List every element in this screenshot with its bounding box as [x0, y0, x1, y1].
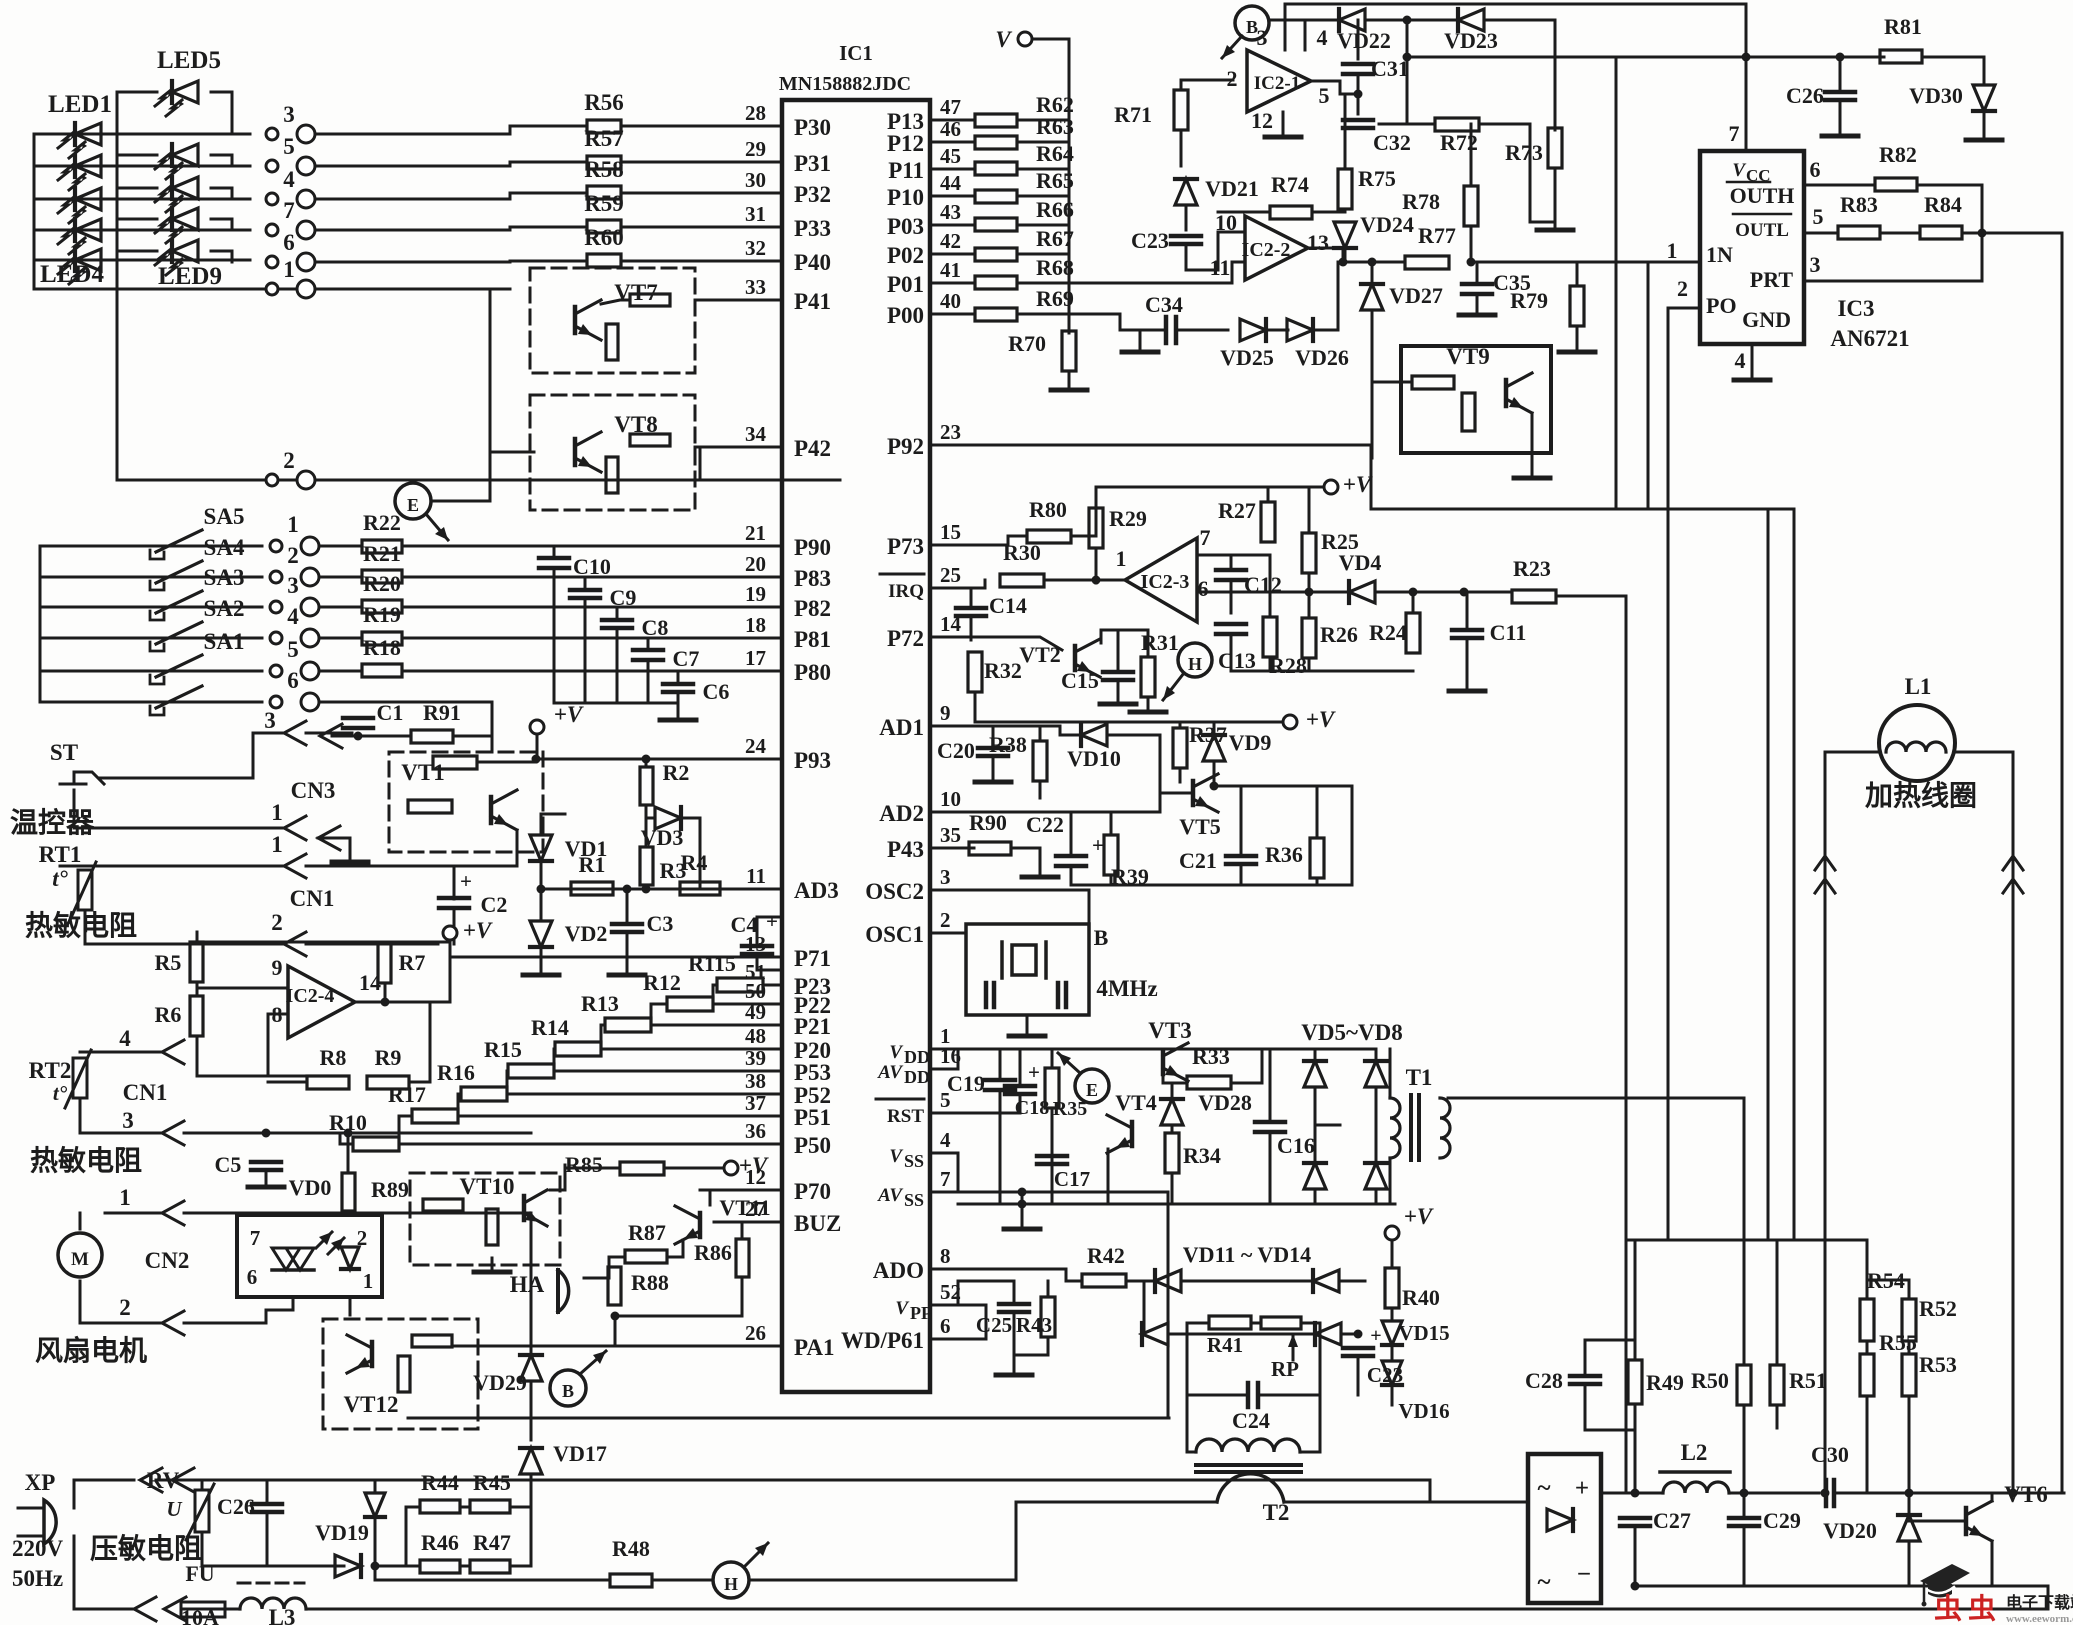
- label 11 IC2-2: [1210, 255, 1231, 280]
- wire R39 down: [1110, 875, 1113, 885]
- wire R87 left: [609, 1257, 625, 1278]
- transistor VT5: [1193, 774, 1218, 812]
- ground VD2: [523, 961, 559, 975]
- resistor R58: [587, 186, 621, 199]
- label pin num 3: [940, 865, 951, 889]
- svg-text:34: 34: [745, 422, 767, 446]
- wire ST down: [74, 790, 284, 828]
- label R26: [1320, 622, 1358, 647]
- label +V 722: [1306, 707, 1336, 732]
- connector arrow C1 left: [320, 724, 342, 748]
- label VD24: [1360, 212, 1414, 237]
- wire VD1 up: [540, 814, 543, 834]
- wire C26 bottom: [266, 1513, 269, 1566]
- label pin num 8: [940, 1244, 951, 1268]
- diode VD2: [530, 921, 552, 947]
- svg-text:45: 45: [940, 144, 961, 168]
- node circle SA3 b: [301, 598, 319, 616]
- svg-text:C17: C17: [1054, 1167, 1090, 1191]
- label pin name P72: [887, 626, 924, 651]
- wire R16 to IC: [507, 1093, 782, 1096]
- wire P70 wire: [700, 1189, 782, 1192]
- transistor VT7: [575, 300, 601, 340]
- label t deg: [52, 866, 68, 891]
- svg-text:B: B: [1094, 925, 1109, 950]
- wire R91 right: [453, 736, 492, 752]
- label VD30: [1909, 83, 1963, 108]
- svg-text:18: 18: [745, 613, 766, 637]
- svg-text:4MHz: 4MHz: [1096, 976, 1157, 1001]
- LED LED5: [155, 81, 198, 116]
- wire T1 top: [1389, 1049, 1392, 1098]
- label R47: [473, 1530, 511, 1555]
- wire LED5 right: [211, 92, 232, 134]
- wire LED row 5: [34, 259, 250, 262]
- svg-text:H: H: [1188, 654, 1202, 674]
- label pin number 11: [746, 864, 766, 888]
- wire pin13 P71 long: [450, 956, 782, 959]
- svg-text:R53: R53: [1919, 1352, 1957, 1377]
- svg-text:P02: P02: [887, 243, 924, 268]
- label 热敏电阻: [25, 910, 137, 942]
- wire R50 down: [1743, 1405, 1746, 1493]
- wire R28 up: [1231, 555, 1270, 617]
- transistor VT6: [1966, 1501, 1992, 1541]
- wire R15 to IC: [554, 1070, 782, 1073]
- wire R52-R53: [1908, 1341, 1911, 1354]
- wire R55 d: [1866, 1396, 1869, 1493]
- label pin name AVDD: [877, 1062, 930, 1087]
- label R31: [1141, 630, 1179, 655]
- ground P43: [1022, 863, 1058, 877]
- label T1: [1406, 1065, 1433, 1090]
- svg-text:VD28: VD28: [1198, 1090, 1252, 1115]
- resistor R20: [362, 600, 402, 613]
- svg-text:VT3: VT3: [1148, 1018, 1191, 1043]
- terminal +V R40: [1385, 1226, 1399, 1240]
- svg-text:C12: C12: [1244, 572, 1282, 597]
- wire CN2-2: [80, 1322, 162, 1325]
- diode VD16: [1382, 1361, 1402, 1385]
- label VD25: [1220, 345, 1274, 370]
- wire VT2 collector up: [1100, 630, 1103, 643]
- capacitor C15: [1103, 672, 1133, 680]
- label plus C18: [1028, 1060, 1040, 1084]
- wire R115 to IC: [763, 984, 782, 987]
- svg-text:3: 3: [264, 708, 276, 733]
- wire bus 885: [1071, 884, 1352, 887]
- svg-text:VD10: VD10: [1067, 746, 1121, 771]
- wire R56 left: [510, 125, 587, 128]
- label pin number 28: [745, 101, 766, 125]
- terminal +V 722: [1283, 715, 1297, 729]
- transistor box VT7 dashed: [530, 268, 695, 373]
- transistor box VT12 dashed: [323, 1319, 478, 1429]
- svg-text:R20: R20: [363, 571, 401, 596]
- svg-text:6: 6: [287, 668, 299, 693]
- svg-text:CN1: CN1: [123, 1080, 168, 1105]
- svg-text:6: 6: [940, 1314, 951, 1338]
- resistor R50: [1737, 1365, 1751, 1405]
- wire right col 2062: [1982, 233, 2062, 1493]
- label C5: [215, 1152, 242, 1177]
- LED LED7: [155, 177, 198, 212]
- wire C35 down: [1476, 294, 1479, 308]
- node small circle row 3: [266, 128, 278, 140]
- label pin name P21: [794, 1014, 831, 1039]
- node R24 top: [1409, 588, 1418, 597]
- label R46: [421, 1530, 459, 1555]
- wire R38 top: [1039, 726, 1042, 741]
- wire R79 up: [1576, 262, 1579, 286]
- svg-text:C5: C5: [215, 1152, 242, 1177]
- ground VT10: [474, 1258, 510, 1272]
- label CN2: [145, 1248, 190, 1273]
- resistor VT7 base vertical: [606, 324, 618, 360]
- svg-text:SS: SS: [904, 1190, 924, 1210]
- IC1 pin 4 VSS tick: [930, 1152, 944, 1155]
- wire R8 R9 row: [268, 1081, 307, 1084]
- wire LED row 2: [34, 165, 250, 168]
- svg-text:P53: P53: [794, 1060, 831, 1085]
- wire R41 left rail: [1186, 1323, 1189, 1395]
- ground C25: [996, 1361, 1032, 1375]
- label pin name P83: [794, 566, 831, 591]
- IC1 pin 21 P90 tick: [770, 545, 782, 548]
- label IC3: [1837, 296, 1874, 321]
- wire C26 up: [1839, 57, 1842, 91]
- IC1 pin 36 P50 tick: [770, 1143, 782, 1146]
- resistor R3: [640, 847, 653, 885]
- wire VD28 u: [1171, 1083, 1174, 1099]
- svg-text:P82: P82: [794, 596, 831, 621]
- svg-text:R13: R13: [581, 991, 619, 1016]
- ground AVSS: [1004, 1215, 1040, 1229]
- capacitor C22: [1056, 856, 1086, 866]
- svg-text:R75: R75: [1358, 166, 1396, 191]
- wire VT4 e: [1107, 1149, 1110, 1204]
- wire bridge left: [1314, 1049, 1317, 1061]
- svg-text:C23: C23: [1131, 228, 1169, 253]
- label R24: [1369, 620, 1407, 645]
- capacitor XC1: [986, 983, 994, 1007]
- node circle SA1 b: [301, 662, 319, 680]
- label pin name P71: [794, 946, 831, 971]
- svg-text:IC1: IC1: [839, 41, 873, 65]
- label pin name P12: [887, 131, 924, 156]
- inductor L2: [1663, 1482, 1729, 1493]
- IC IC3 AN6721 body: [1700, 151, 1804, 344]
- svg-text:R73: R73: [1505, 140, 1543, 165]
- wire P73 row: [944, 544, 1008, 547]
- label pin name PA1: [794, 1335, 834, 1360]
- label 12 IC2-1: [1251, 108, 1273, 133]
- label pin number 17: [745, 646, 766, 670]
- label R36: [1265, 842, 1303, 867]
- svg-text:R83: R83: [1840, 192, 1878, 217]
- wire R86 top: [741, 1222, 744, 1239]
- label pin name P92: [887, 434, 924, 459]
- svg-text:L2: L2: [1681, 1440, 1708, 1465]
- svg-text:P93: P93: [794, 748, 831, 773]
- wire R31 top: [1118, 630, 1148, 657]
- label VD19: [315, 1520, 369, 1545]
- label IC2-1: [1254, 73, 1300, 94]
- terminal H arrow mid: [1163, 673, 1184, 700]
- node circle SA5 a: [270, 540, 282, 552]
- label pin number 50: [745, 979, 766, 1003]
- label R83: [1840, 192, 1878, 217]
- wire VT6 collector: [1991, 1493, 1994, 1501]
- IC1 pin 43 P03 tick: [930, 224, 944, 227]
- svg-text:3: 3: [1810, 252, 1821, 277]
- svg-text:220V: 220V: [12, 1536, 64, 1561]
- svg-text:VD24: VD24: [1360, 212, 1414, 237]
- wire VD30 down: [1983, 111, 1986, 132]
- wire C12 up: [1230, 555, 1233, 570]
- label pin name P02: [887, 243, 924, 268]
- svg-text:28: 28: [745, 101, 766, 125]
- label VD23: [1444, 28, 1498, 53]
- svg-text:+: +: [1092, 833, 1104, 857]
- svg-text:R19: R19: [363, 602, 401, 627]
- label R25: [1321, 529, 1359, 554]
- thermistor RT1: [70, 862, 96, 920]
- capacitor C23: [1171, 236, 1201, 244]
- node big circle row 7: [297, 221, 315, 239]
- wire LED row 1: [34, 133, 250, 136]
- svg-text:V: V: [1732, 160, 1746, 181]
- diode VD28: [1161, 1099, 1183, 1125]
- wire br mid left: [1315, 1124, 1340, 1127]
- svg-text:VD2: VD2: [565, 921, 608, 946]
- wire R59 left: [510, 226, 587, 229]
- wire C31-C32: [1357, 74, 1360, 114]
- resistor VT12 vert: [398, 1356, 410, 1392]
- label pin name P10: [887, 185, 924, 210]
- resistor R75: [1338, 169, 1352, 209]
- label pin number 20: [745, 552, 766, 576]
- label CN1: [290, 886, 335, 911]
- resistor R85: [620, 1162, 664, 1175]
- label B crystal: [1094, 925, 1109, 950]
- label C7: [673, 646, 700, 671]
- label +V CN3: [554, 702, 584, 727]
- connector arrow row3: [284, 721, 306, 745]
- svg-text:t°: t°: [52, 866, 68, 891]
- svg-text:32: 32: [745, 236, 766, 260]
- wire col 1768: [1767, 509, 1770, 1240]
- label number 4: [287, 604, 299, 629]
- label pin number 51: [745, 960, 766, 984]
- diode VD12: [1142, 1323, 1168, 1345]
- svg-text:SS: SS: [904, 1151, 924, 1171]
- svg-text:C34: C34: [1145, 292, 1183, 317]
- IC1 pin 41 P01 tick: [930, 282, 944, 285]
- svg-text:C14: C14: [989, 593, 1027, 618]
- IC1 pin 3 OSC2 tick: [930, 889, 944, 892]
- svg-text:P01: P01: [887, 272, 924, 297]
- wire C31 stub: [1357, 53, 1360, 59]
- label pin num 42: [940, 229, 961, 253]
- terminal +V mid: [1324, 480, 1338, 494]
- resistor R66: [975, 218, 1017, 231]
- svg-text:4: 4: [940, 1128, 951, 1152]
- diode VD24: [1334, 222, 1356, 248]
- label pin name AD3: [794, 878, 839, 903]
- svg-text:C26: C26: [217, 1494, 255, 1519]
- svg-text:4: 4: [283, 167, 295, 192]
- wire VD9 down: [1213, 761, 1216, 786]
- wire R17 to IC: [458, 1115, 782, 1118]
- resistor R71: [1174, 90, 1188, 130]
- label pin name VPP: [895, 1298, 932, 1323]
- LED LED2 left column: [58, 155, 101, 190]
- capacitor C3: [612, 924, 642, 932]
- label SA1: [204, 629, 245, 654]
- wire R44-R45: [460, 1506, 470, 1509]
- label 热敏电阻 lower: [30, 1145, 142, 1177]
- wire VD10 r2: [1107, 735, 1160, 812]
- svg-text:热敏电阻: 热敏电阻: [25, 910, 137, 942]
- wire R58 left: [510, 192, 587, 195]
- label pin name P41: [794, 289, 831, 314]
- node R1 right: [623, 885, 632, 894]
- svg-text:P81: P81: [794, 627, 831, 652]
- svg-text:5: 5: [287, 637, 299, 662]
- svg-text:−: −: [1577, 1561, 1591, 1588]
- label R89: [371, 1177, 409, 1202]
- svg-text:6: 6: [1198, 576, 1209, 601]
- wire C25 down: [1013, 1313, 1016, 1355]
- wire IC2-2 out: [1308, 248, 1343, 262]
- svg-text:IC2-4: IC2-4: [286, 985, 335, 1007]
- IC1 pin 23 P92 tick: [930, 444, 944, 447]
- wire VD12 right: [1168, 1333, 1315, 1336]
- label pin number 32: [745, 236, 766, 260]
- terminal +V CN3: [530, 720, 544, 734]
- resistor R4: [680, 882, 720, 895]
- label C15: [1061, 668, 1099, 693]
- wire rail T2 left: [1016, 1501, 1217, 1504]
- svg-text:R115: R115: [688, 951, 736, 976]
- label R10: [329, 1110, 367, 1135]
- node small circle row 2: [266, 474, 278, 486]
- svg-text:SA4: SA4: [204, 535, 245, 560]
- svg-text:13: 13: [745, 932, 766, 956]
- label C17: [1054, 1167, 1090, 1191]
- wire P73 jog: [1008, 536, 1027, 545]
- node circle row6 b: [301, 693, 319, 711]
- wire row3 lower right: [184, 1132, 531, 1135]
- wire VT9 base left: [1372, 381, 1412, 384]
- wire RT2 down: [80, 1098, 162, 1133]
- label R79: [1510, 288, 1548, 313]
- label R37: [1189, 722, 1227, 747]
- switch SA row6: [150, 686, 202, 715]
- svg-text:IRQ: IRQ: [888, 581, 924, 602]
- svg-text:WD/P61: WD/P61: [841, 1328, 924, 1353]
- svg-text:R27: R27: [1218, 498, 1256, 523]
- wire row4 lower: [80, 1051, 162, 1054]
- diode VD6: [1365, 1061, 1387, 1087]
- IC1 pin 24 P93 tick: [770, 758, 782, 761]
- label pin number 31: [745, 202, 766, 226]
- label C11: [1490, 620, 1527, 645]
- svg-text:40: 40: [940, 289, 961, 313]
- node rail 2013: [2009, 1489, 2018, 1498]
- wire R44 drop: [405, 1507, 408, 1566]
- wire R60 left: [510, 260, 587, 263]
- label pin number 27: [745, 1197, 766, 1221]
- wire R89 top: [347, 1133, 350, 1173]
- IC1 pin 11 AD3 tick: [770, 888, 782, 891]
- svg-text:T1: T1: [1406, 1065, 1433, 1090]
- label R2: [663, 760, 690, 785]
- svg-text:17: 17: [745, 646, 766, 670]
- svg-text:P83: P83: [794, 566, 831, 591]
- ground R31: [1130, 698, 1166, 712]
- svg-text:AN6721: AN6721: [1830, 326, 1909, 351]
- LED in optocoupler: [316, 1232, 359, 1269]
- svg-text:R57: R57: [584, 126, 624, 151]
- wire IC2-4 out: [355, 1001, 450, 1004]
- svg-text:R43: R43: [1016, 1313, 1052, 1337]
- svg-text:R4: R4: [681, 850, 708, 875]
- svg-text:LED4: LED4: [40, 261, 104, 288]
- wire R70 down: [1068, 371, 1071, 383]
- wire C6 stub: [677, 671, 680, 681]
- wire R26 down: [1308, 658, 1311, 671]
- wire R34 down: [1171, 1173, 1174, 1204]
- connector arrow inner CN3: [318, 826, 350, 852]
- svg-text:C28: C28: [1525, 1368, 1563, 1393]
- fuse FU: [181, 1602, 225, 1617]
- svg-text:C20: C20: [937, 738, 975, 763]
- diode VD5: [1304, 1061, 1326, 1087]
- label C27: [1653, 1508, 1691, 1533]
- wire SA2 to resistor: [319, 637, 360, 640]
- label R6: [155, 1002, 182, 1027]
- wire SA5 to resistor: [319, 545, 360, 548]
- svg-text:R84: R84: [1924, 192, 1962, 217]
- svg-text:V: V: [889, 1146, 903, 1167]
- wire VD20 up: [1908, 1493, 1911, 1515]
- wire C31 from rail: [1357, 20, 1360, 59]
- motor M circle: [58, 1233, 102, 1277]
- svg-text:P73: P73: [887, 534, 924, 559]
- label pin num 2: [940, 908, 951, 932]
- wire R85 right: [664, 1167, 724, 1170]
- label pin number 4: [283, 167, 295, 192]
- wire bottom rail right: [1635, 1585, 2048, 1588]
- resistor R81: [1880, 50, 1922, 63]
- capacitor C26 top: [1825, 92, 1855, 100]
- wire R48 right: [652, 1579, 713, 1582]
- wire L1 left: [1825, 752, 1879, 1493]
- label 4 IC2-1: [1317, 25, 1328, 50]
- resistor R88: [608, 1267, 621, 1305]
- svg-text:C22: C22: [1026, 812, 1064, 837]
- wire R29 top: [1095, 487, 1098, 508]
- wire d1016: [1015, 1502, 1018, 1580]
- label VD2: [565, 921, 608, 946]
- label C12: [1244, 572, 1282, 597]
- node R88 bottom: [611, 1312, 620, 1321]
- wire VT6 base wire: [1909, 1520, 1966, 1523]
- node VD junction: [537, 885, 546, 894]
- label R21: [363, 541, 401, 566]
